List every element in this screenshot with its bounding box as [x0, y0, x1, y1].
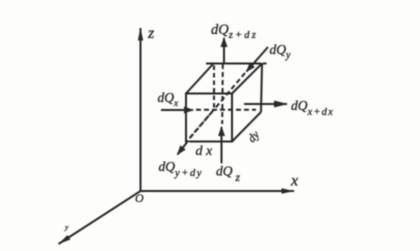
- arrow dQz+dz: [223, 38, 225, 63]
- svg-text:z: z: [147, 25, 155, 42]
- arrow dQy: [247, 47, 269, 72]
- arrow dQx: [161, 109, 193, 111]
- svg-text:O: O: [135, 191, 144, 205]
- svg-text:x: x: [290, 173, 298, 190]
- arrow dQy+dy: [178, 141, 189, 155]
- z centre line dashed: [221, 64, 224, 124]
- y-axis: [59, 191, 141, 244]
- x-axis: [141, 190, 295, 192]
- cube top face right edge: [232, 64, 262, 94]
- cube front face: [186, 94, 232, 142]
- svg-text:dx: dx: [196, 144, 216, 159]
- y centre line dashed: [189, 73, 245, 139]
- arrow dQx+dx: [244, 103, 287, 105]
- hidden bottom-back edge + x centre line: [196, 109, 256, 111]
- arrow dQz: [221, 127, 223, 163]
- cube right face bottom edge: [232, 112, 261, 142]
- hidden back-left vertical edge: [213, 66, 215, 111]
- cube top face left edge: [186, 64, 214, 94]
- z-axis: [140, 28, 142, 191]
- cube top face back edge: [206, 63, 267, 65]
- hidden bottom-left diagonal edge: [187, 112, 212, 141]
- svg-text:y: y: [64, 223, 69, 232]
- cube right face back vertical edge: [261, 64, 262, 113]
